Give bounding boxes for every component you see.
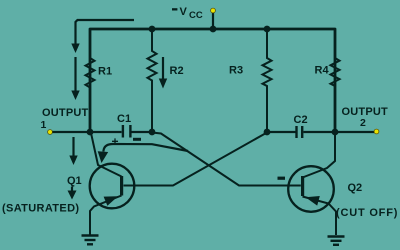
label R4 bbox=[315, 65, 330, 77]
svg-text:Q1: Q1 bbox=[67, 175, 82, 187]
svg-text:OUTPUT: OUTPUT bbox=[42, 107, 88, 119]
label OUTPUT 1 bbox=[41, 107, 89, 131]
svg-text:2: 2 bbox=[360, 117, 366, 129]
node: junction R2 on top rail bbox=[149, 26, 156, 33]
wire: -VCC stub bbox=[212, 11, 214, 29]
svg-text:1: 1 bbox=[41, 119, 47, 131]
label (SATURATED) bbox=[2, 203, 79, 215]
wire: top supply rail bbox=[90, 29, 335, 131]
svg-text:C2: C2 bbox=[294, 114, 308, 126]
capacitor C2 bbox=[267, 126, 335, 138]
terminal: output 2 yellow dot bbox=[374, 129, 379, 134]
label R2 bbox=[170, 65, 184, 77]
arrow: charge current hook toward Q1 collector bbox=[98, 144, 188, 163]
node: junction R2 / C1 bbox=[149, 129, 156, 136]
svg-text:Q2: Q2 bbox=[348, 182, 363, 194]
label Q2 bbox=[348, 182, 363, 194]
arrow: current arrow beside R1 bbox=[71, 57, 79, 100]
svg-text:R2: R2 bbox=[170, 65, 184, 77]
svg-text:R1: R1 bbox=[98, 66, 112, 78]
svg-text:(CUT OFF): (CUT OFF) bbox=[336, 207, 398, 219]
ground for Q1 emitter bbox=[82, 236, 99, 245]
terminal: output 1 yellow dot bbox=[48, 130, 53, 135]
label minus sign at C1 bbox=[133, 138, 141, 141]
label R1 bbox=[98, 66, 112, 78]
svg-text:R4: R4 bbox=[315, 65, 330, 77]
wire: cross-coupling C1/R2 node to Q2 base bbox=[152, 133, 301, 186]
svg-text:+: + bbox=[112, 135, 119, 149]
arrow: current elbow at top left bbox=[71, 20, 134, 53]
wire: cross-coupling R3 node to Q1 base bbox=[124, 133, 268, 186]
wire: output 1 lead bbox=[53, 131, 91, 133]
node: junction output1 / R1 / C1 / Q1 collector bbox=[87, 129, 94, 136]
ground for Q2 emitter bbox=[328, 237, 345, 245]
arrow: current arrow beside R2 bbox=[159, 57, 167, 89]
node: junction R3 / C2 bbox=[264, 129, 271, 136]
node: junction R4 / C2 / Q2 collector bbox=[332, 129, 339, 136]
transistor Q1 bbox=[90, 133, 135, 235]
svg-text:C1: C1 bbox=[117, 113, 131, 125]
svg-text:V: V bbox=[180, 6, 188, 18]
label R3 bbox=[229, 65, 243, 77]
label minus sign at Q2 base bbox=[278, 177, 286, 180]
label plus sign at C1 bbox=[112, 135, 119, 149]
svg-text:R3: R3 bbox=[229, 65, 243, 77]
transistor Q2 bbox=[288, 133, 336, 235]
label -VCC bbox=[172, 6, 203, 21]
capacitor C1 bbox=[90, 125, 152, 138]
resistor R4 bbox=[331, 30, 340, 131]
label (CUT OFF) bbox=[336, 207, 398, 219]
svg-text:CC: CC bbox=[189, 10, 203, 21]
label C1 bbox=[117, 113, 131, 125]
arrow: small arrow below Q1 label bbox=[68, 187, 77, 200]
node: junction R3 on top rail bbox=[264, 26, 271, 33]
node: junction VCC on top rail bbox=[210, 26, 217, 33]
arrow: current arrow below output 1 bbox=[69, 137, 77, 165]
resistor R3 bbox=[263, 30, 272, 131]
resistor R1 bbox=[86, 29, 95, 131]
label Q1 bbox=[67, 175, 82, 187]
label C2 bbox=[294, 114, 308, 126]
label OUTPUT 2 bbox=[342, 106, 389, 129]
resistor R2 bbox=[148, 29, 157, 131]
terminal: -VCC yellow dot bbox=[211, 8, 216, 13]
wire: output 2 lead bbox=[335, 131, 374, 133]
svg-text:(SATURATED): (SATURATED) bbox=[2, 203, 79, 215]
